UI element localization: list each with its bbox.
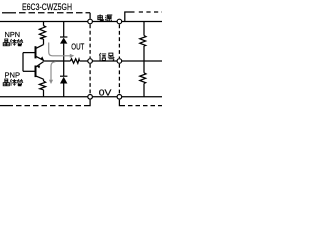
svg-text:E6C3-CWZ5GH: E6C3-CWZ5GH (22, 2, 72, 13)
svg-text:NPN: NPN (5, 32, 21, 39)
svg-text:0V: 0V (99, 89, 112, 98)
svg-text:OUT: OUT (71, 43, 84, 52)
svg-text:PNP: PNP (5, 72, 21, 79)
